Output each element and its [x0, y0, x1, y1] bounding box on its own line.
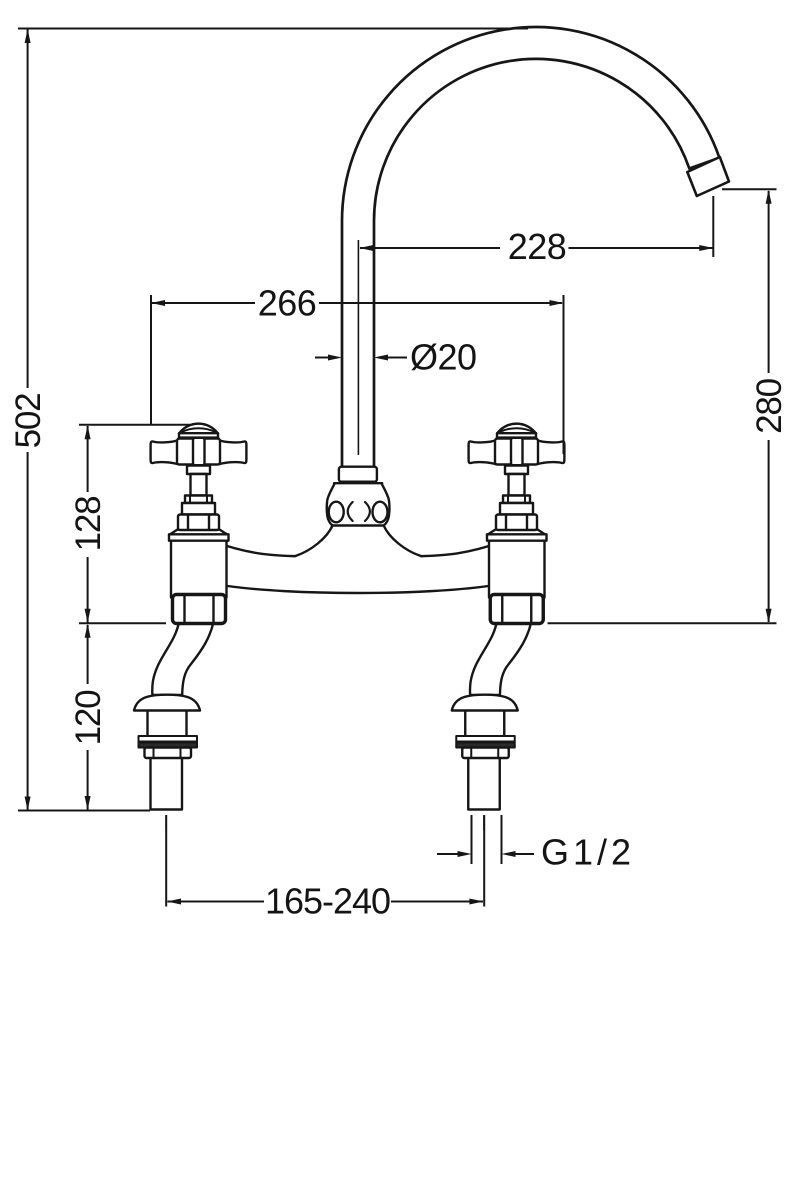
- spout base collar: [339, 467, 377, 482]
- dimension 502 (overall height, left): [18, 29, 528, 811]
- dimension diameter 20 (spout tube): [315, 357, 407, 359]
- mount column: [171, 540, 227, 598]
- left port intersection curve: [348, 502, 353, 521]
- right coupling hex nut: [490, 595, 543, 624]
- shank: [148, 709, 187, 737]
- deck flange bell: [134, 695, 200, 711]
- left handle assembly (cross head, stem, mount): [151, 424, 247, 598]
- svg-text:G1/2: G1/2: [541, 832, 635, 873]
- dimension 228 (spout reach): [358, 196, 713, 455]
- right handle lobe: [219, 440, 246, 464]
- skirt cone: [169, 530, 228, 536]
- left coupling hex nut: [173, 595, 226, 624]
- handle cap dome: [179, 424, 218, 440]
- left side port boss: [329, 502, 344, 523]
- dimension 165-240 (adjustable tail centres): [166, 815, 484, 907]
- backnut: [145, 748, 192, 759]
- front spoke: [193, 438, 205, 465]
- svg-text:228: 228: [508, 226, 567, 267]
- svg-text:Ø20: Ø20: [410, 337, 477, 378]
- right side port boss: [373, 502, 388, 523]
- handle boss: [177, 439, 220, 465]
- s-bend tube: [152, 622, 213, 695]
- gland ring: [185, 496, 212, 504]
- skirt band: [169, 534, 229, 540]
- bonnet hex: [178, 515, 219, 531]
- centre pot (spout base body): [296, 483, 421, 561]
- spout swan-neck tube: [342, 27, 719, 468]
- spout outlet tip cap: [687, 157, 729, 196]
- dimension 120 (deck nut to tail end): [87, 625, 89, 810]
- svg-text:120: 120: [69, 690, 108, 746]
- right offset leg assembly: [452, 622, 532, 830]
- top washer: [139, 736, 198, 742]
- right port intersection curve: [365, 502, 370, 521]
- svg-text:502: 502: [9, 394, 48, 449]
- dimension 280 (spout outlet height, right): [548, 189, 777, 623]
- bridge body bar: [215, 542, 501, 593]
- svg-text:266: 266: [258, 283, 317, 324]
- rubber washer: [139, 743, 198, 748]
- svg-text:128: 128: [69, 497, 108, 552]
- dimension 266 (overall width across handles): [151, 295, 564, 454]
- threaded tail: [151, 757, 183, 810]
- stem: [191, 474, 207, 496]
- left offset leg assembly: [134, 622, 214, 830]
- neck: [187, 466, 210, 475]
- left handle lobe: [151, 440, 178, 464]
- bonnet block: [182, 503, 215, 515]
- svg-text:280: 280: [750, 378, 789, 434]
- dimension G1/2 (tail thread): [437, 815, 534, 864]
- tail centreline: [165, 816, 167, 830]
- dimension 128 (handle top to deck nut): [79, 425, 190, 624]
- right handle assembly: [469, 424, 565, 598]
- svg-text:165-240: 165-240: [265, 881, 390, 922]
